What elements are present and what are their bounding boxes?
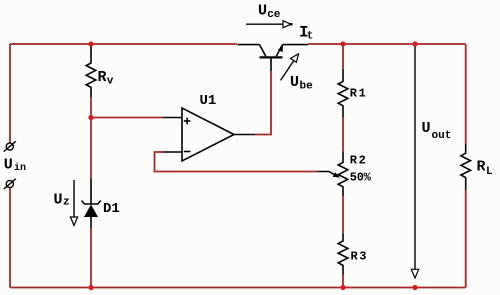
wire R3 to bottom rail — [342, 275, 344, 288]
svg-text:R2: R2 — [350, 153, 366, 167]
wire R2 to R3 — [342, 196, 344, 234]
junction Uout bottom — [412, 285, 417, 290]
wire Rv node segment (junction to opamp + node) — [90, 97, 92, 118]
label Uz — [54, 192, 70, 209]
label Uin — [4, 157, 26, 174]
wire right rail lower — [465, 190, 467, 288]
transistor Q1 — [238, 45, 309, 71]
wire plus-node to opamp input — [91, 117, 163, 119]
svg-text:R: R — [477, 159, 486, 176]
junction R3 bottom — [340, 285, 345, 290]
svg-text:50%: 50% — [350, 171, 372, 185]
label Uce — [258, 3, 281, 21]
svg-text:U: U — [290, 74, 299, 91]
wire bottom rail — [10, 287, 466, 289]
resistor RL — [461, 144, 471, 190]
svg-text:v: v — [107, 76, 114, 88]
wire R1 to R2 — [342, 117, 344, 151]
junction R1 top — [340, 41, 345, 46]
svg-text:U1: U1 — [200, 93, 217, 109]
svg-text:z: z — [63, 197, 70, 209]
wire emitter to output rail — [308, 43, 466, 45]
arrow Uout — [411, 46, 418, 278]
label Ube — [290, 74, 313, 92]
resistor Rv — [86, 45, 96, 98]
resistor R1 — [338, 69, 348, 117]
wire divider top (rail to R1) — [342, 44, 344, 69]
svg-text:ce: ce — [267, 9, 281, 21]
arrow Ube — [281, 54, 299, 81]
wire opamp output to transistor base — [255, 71, 271, 135]
wire left rail upper — [9, 44, 11, 143]
svg-text:L: L — [486, 166, 493, 178]
resistor R3 — [338, 234, 348, 275]
label Uout — [422, 120, 452, 142]
svg-text:out: out — [432, 130, 452, 142]
svg-text:U: U — [258, 3, 267, 20]
terminal input top — [4, 141, 16, 151]
junction Uout top — [412, 41, 417, 46]
svg-text:R3: R3 — [351, 250, 367, 264]
label RL — [477, 159, 494, 179]
wire plus-node down to zener — [90, 118, 92, 179]
junction opamp plus node — [88, 115, 93, 120]
potentiometer R2 — [338, 151, 348, 196]
svg-text:be: be — [300, 80, 314, 92]
svg-text:in: in — [14, 162, 26, 174]
svg-text:D1: D1 — [103, 201, 120, 217]
svg-text:U: U — [4, 157, 13, 174]
svg-text:R1: R1 — [350, 86, 366, 100]
terminal input bottom — [4, 179, 16, 189]
arrow Uz — [70, 180, 77, 226]
svg-text:U: U — [54, 192, 63, 209]
arrow Uce — [246, 21, 293, 28]
wiper arrow of R2 — [318, 172, 341, 178]
junction Rv top — [88, 41, 93, 46]
junction D1 bottom — [88, 285, 93, 290]
op-amp U1 — [163, 108, 255, 161]
svg-text:R: R — [98, 69, 107, 86]
svg-text:t: t — [307, 31, 314, 43]
svg-text:U: U — [422, 120, 431, 137]
zener diode D1 — [82, 179, 101, 229]
wire left rail lower — [9, 188, 11, 288]
label Rv — [98, 69, 114, 88]
wire right rail upper (to RL) — [465, 44, 467, 144]
wire top rail from input to transistor collector — [10, 43, 237, 45]
wire zener anode to bottom rail — [90, 228, 92, 288]
label It — [299, 24, 313, 43]
wire feedback from minus input to R2 wiper — [155, 152, 318, 172]
